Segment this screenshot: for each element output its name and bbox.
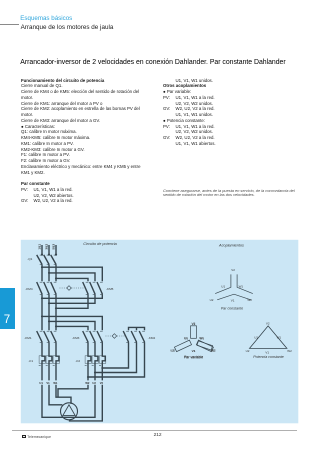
wire KM3 feed bus pole3 <box>55 325 88 330</box>
svg-text:W2: W2 <box>287 349 292 353</box>
svg-text:-KM1: -KM1 <box>24 336 32 340</box>
svg-text:W2: W2 <box>247 298 252 302</box>
node motor terminals W2 U2 V2 <box>85 381 103 385</box>
svg-text:V2: V2 <box>192 322 196 326</box>
header rule <box>0 23 19 26</box>
italic note <box>163 189 298 199</box>
svg-text:U2: U2 <box>246 349 250 353</box>
svg-text:-F1: -F1 <box>29 359 34 363</box>
footer rule <box>12 429 297 432</box>
svg-text:U2: U2 <box>171 349 175 353</box>
svg-text:W1: W1 <box>277 336 282 340</box>
node L1 L2 L3 supply lines <box>37 243 57 255</box>
wire KM3 feed bus pole1 <box>41 315 102 330</box>
overload relay F2 <box>76 342 106 380</box>
header <box>20 15 72 22</box>
svg-text:U2: U2 <box>92 381 96 385</box>
mechanical interlock KM3-KM2 <box>106 334 127 339</box>
wire KM5 return bus pole3 <box>55 294 88 309</box>
svg-text:-F2: -F2 <box>76 359 81 363</box>
svg-text:W1: W1 <box>53 381 58 385</box>
coupling diagram Par constante <box>210 268 253 310</box>
svg-text:Par constante: Par constante <box>221 306 243 310</box>
page number <box>154 433 162 438</box>
svg-text:V2: V2 <box>231 268 235 272</box>
svg-text:U1: U1 <box>39 381 43 385</box>
coupling diagram Potencia constante <box>246 321 293 359</box>
svg-text:Circuito de potencia: Circuito de potencia <box>83 242 117 246</box>
wire crossover feed to KM5 <box>41 266 102 281</box>
svg-text:W2: W2 <box>85 381 90 385</box>
svg-text:Acoplamientos: Acoplamientos <box>218 243 244 247</box>
wire KM4 columns down to KM1 <box>42 294 56 330</box>
svg-text:V2: V2 <box>266 321 270 325</box>
wire KM5 return bus pole1 <box>41 294 102 299</box>
overload relay F1 <box>29 342 60 380</box>
wire KM2 star loop pole3 <box>87 342 145 378</box>
svg-text:V2: V2 <box>100 381 104 385</box>
contactor KM3 <box>72 331 103 342</box>
svg-text:V1: V1 <box>231 298 235 302</box>
svg-text:-KM4: -KM4 <box>25 287 33 291</box>
left text column <box>21 78 163 205</box>
svg-text:U2: U2 <box>210 298 214 302</box>
svg-text:U1: U1 <box>254 336 258 340</box>
svg-text:-KM3: -KM3 <box>72 336 80 340</box>
caption Circuito de potencia <box>83 242 117 246</box>
wire KM5 return bus pole2 <box>48 294 95 304</box>
wire KM2 star loop pole2 <box>94 342 137 373</box>
wire Q1 to KM4 verticals <box>42 265 56 282</box>
wire KM2 star loop pole1 <box>101 342 128 369</box>
svg-text:W2: W2 <box>211 349 216 353</box>
wire motor feed V1 <box>49 385 62 405</box>
svg-text:W1: W1 <box>200 337 205 341</box>
svg-text:W1: W1 <box>239 285 244 289</box>
wire motor feed W1 <box>56 385 71 404</box>
svg-text:-KM2: -KM2 <box>148 336 156 340</box>
right text column <box>163 78 293 147</box>
panel background <box>21 240 299 423</box>
footer logo <box>22 435 26 439</box>
svg-text:5/L3: 5/L3 <box>51 243 55 249</box>
caption Acoplamientos <box>218 243 244 247</box>
contactor KM2 with star bridge <box>123 327 155 342</box>
title <box>20 59 285 66</box>
svg-text:U1: U1 <box>221 285 225 289</box>
contactor KM1 <box>24 331 56 342</box>
breaker Q1 <box>27 255 56 265</box>
svg-text:U1: U1 <box>184 337 188 341</box>
wire motor feed W2 <box>58 385 88 397</box>
contactor KM5 <box>83 282 114 294</box>
wire motor feed V2 <box>70 385 103 421</box>
coupling diagram Par variable <box>170 322 215 359</box>
motor M Dahlander <box>61 403 78 420</box>
wire motor feed under motor <box>42 385 95 418</box>
wire KM3 feed bus pole2 <box>48 320 95 330</box>
svg-text:1/L1: 1/L1 <box>37 243 41 249</box>
svg-text:Par variable: Par variable <box>184 356 203 360</box>
svg-text:-Q1: -Q1 <box>27 257 32 261</box>
node motor terminals U1 V1 W1 <box>39 381 58 385</box>
mechanical interlock KM4-KM5 <box>60 286 86 291</box>
svg-text:-KM5: -KM5 <box>106 287 114 291</box>
svg-text:3/L2: 3/L2 <box>44 243 48 249</box>
svg-text:V1: V1 <box>192 349 196 353</box>
svg-text:V1: V1 <box>46 381 50 385</box>
svg-text:Potencia constante: Potencia constante <box>253 355 284 359</box>
contactor KM4 <box>25 282 56 294</box>
chapter tab 7 <box>0 288 15 328</box>
svg-text:V1: V1 <box>265 351 269 355</box>
